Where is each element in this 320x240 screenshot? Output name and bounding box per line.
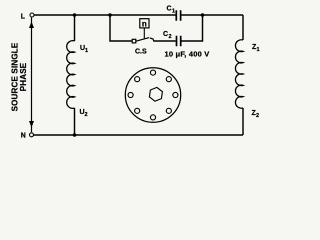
node dot top switch branch <box>108 13 112 17</box>
wire bottom N to right corner <box>34 134 244 136</box>
wire top after C1 <box>181 14 243 16</box>
wire switch branch vertical <box>110 15 132 41</box>
source arrow down <box>29 121 34 128</box>
node dot top after C1 <box>201 13 205 17</box>
switch blade <box>136 38 149 42</box>
svg-text:L: L <box>21 13 26 20</box>
source line <box>31 17 33 132</box>
svg-text:1: 1 <box>257 47 260 53</box>
svg-text:N: N <box>21 132 26 139</box>
label SOURCE SINGLE PHASE <box>11 42 29 111</box>
node dot bottom U2 <box>73 133 77 137</box>
terminal L circle <box>30 13 34 17</box>
svg-text:n: n <box>142 20 147 29</box>
motor rotor circle <box>125 68 180 123</box>
switch C.S terminal square <box>132 39 136 43</box>
svg-text:1: 1 <box>85 48 88 54</box>
wire C2 to vertical <box>182 15 203 41</box>
svg-text:PHASE: PHASE <box>19 62 28 91</box>
terminal N circle <box>30 133 34 137</box>
wire right vertical bottom <box>242 108 244 135</box>
source arrow up <box>29 22 34 29</box>
svg-text:2: 2 <box>85 112 88 118</box>
wire right vertical top <box>242 15 244 40</box>
wire U branch lower <box>74 108 76 135</box>
svg-text:10 μF, 400 V: 10 μF, 400 V <box>165 49 210 58</box>
capacitor C2 plates <box>177 36 181 47</box>
rotor bar holes <box>128 70 178 120</box>
wire switch to C2 <box>153 40 175 42</box>
svg-text:C.S: C.S <box>135 48 147 55</box>
node dot top U1 <box>73 13 77 17</box>
n box <box>140 19 149 28</box>
winding U1-U2 main coil <box>67 41 75 109</box>
svg-text:C: C <box>167 5 172 12</box>
svg-text:2: 2 <box>256 113 259 119</box>
svg-text:2: 2 <box>169 34 172 40</box>
capacitor C1 plates <box>176 10 180 21</box>
svg-text:C: C <box>163 31 168 38</box>
wire U branch upper <box>74 15 76 41</box>
wire top L to right corner <box>35 14 176 16</box>
svg-text:1: 1 <box>172 8 175 14</box>
rotor shaft hexagon <box>149 87 163 103</box>
switch fixed contact <box>150 38 154 41</box>
centrifugal link line <box>143 28 145 38</box>
winding Z1-Z2 auxiliary coil <box>235 40 243 108</box>
